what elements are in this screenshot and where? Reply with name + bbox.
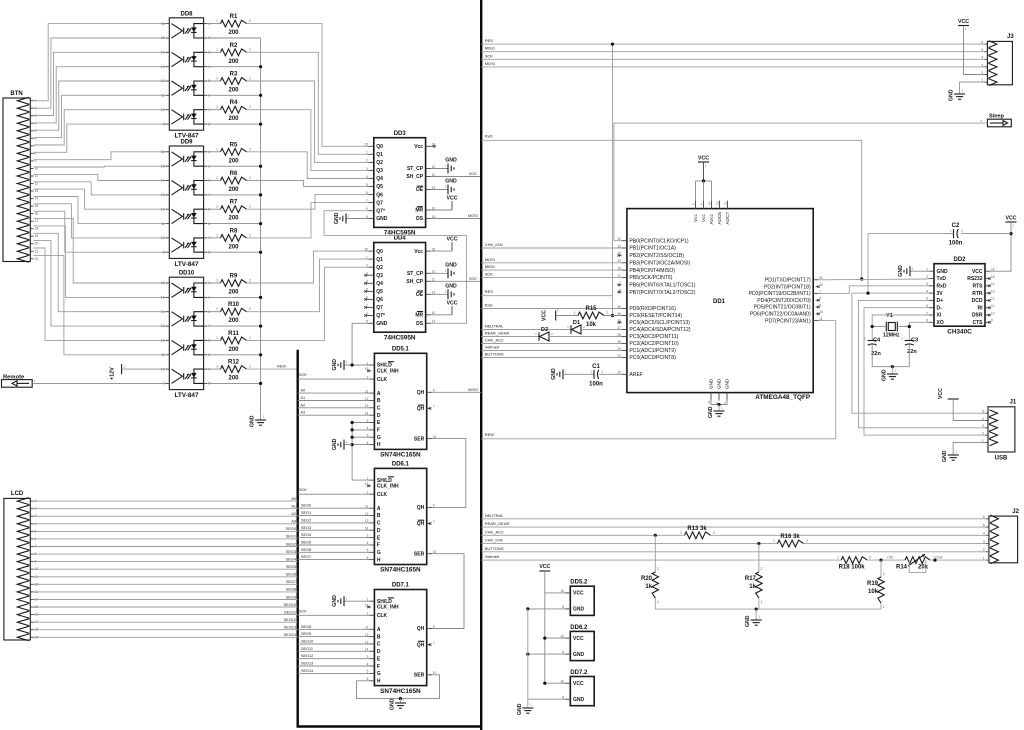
svg-text:200: 200 xyxy=(228,158,239,164)
wire VCC to DD5.2 xyxy=(545,592,565,594)
svg-text:10: 10 xyxy=(161,236,165,240)
wire DD3 DS MOSI xyxy=(431,214,481,219)
svg-text:PD2(INT0/PCINT18): PD2(INT0/PCINT18) xyxy=(764,284,811,290)
svg-text:Q1: Q1 xyxy=(376,152,383,158)
svg-text:CLK_INH: CLK_INH xyxy=(377,484,399,490)
wire REAR_GEAR with diode D2 to PC3 xyxy=(481,331,539,337)
svg-text:12: 12 xyxy=(161,339,165,343)
svg-text:GND: GND xyxy=(332,595,338,607)
svg-text:Q5: Q5 xyxy=(376,289,383,295)
svg-text:Voltmetr: Voltmetr xyxy=(485,554,500,559)
svg-text:PC4(ADC4/SDA/PCINT12): PC4(ADC4/SDA/PCINT12) xyxy=(629,327,690,333)
resistor R11 xyxy=(207,331,251,353)
svg-text:R17: R17 xyxy=(745,576,757,582)
svg-text:10k: 10k xyxy=(868,589,879,595)
svg-text:VCC: VCC xyxy=(698,156,709,162)
svg-text:R8: R8 xyxy=(230,228,238,234)
svg-text:C: C xyxy=(377,521,381,527)
svg-text:GND: GND xyxy=(573,697,585,703)
svg-text:2: 2 xyxy=(249,77,251,81)
svg-text:B: B xyxy=(377,634,381,640)
svg-text:11: 11 xyxy=(161,222,165,226)
svg-text:SEG2: SEG2 xyxy=(301,518,311,522)
svg-text:2: 2 xyxy=(713,531,715,535)
wire SCK to DD5.1 CLK xyxy=(298,373,369,379)
power block DD5.2 xyxy=(560,580,594,616)
resistor R12 xyxy=(207,360,251,382)
wire BTN pins 17-22 to DD10 inputs xyxy=(34,219,166,355)
wire DD2 3V to C2 and J1 pin 5 xyxy=(852,234,985,414)
svg-text:SEG10: SEG10 xyxy=(284,603,296,607)
svg-text:VCC: VCC xyxy=(573,591,584,597)
svg-text:XO: XO xyxy=(937,320,944,326)
svg-text:GND: GND xyxy=(949,89,955,101)
svg-text:CLK_INH: CLK_INH xyxy=(377,369,399,375)
svg-text:13: 13 xyxy=(161,324,165,328)
svg-text:11: 11 xyxy=(161,353,165,357)
svg-text:Vcc: Vcc xyxy=(701,214,706,222)
svg-text:BUTTONS: BUTTONS xyxy=(485,546,504,551)
wire BUTTONS to J2 xyxy=(481,546,986,552)
wire DD3 SH_CP SCK xyxy=(431,172,481,177)
svg-text:R2: R2 xyxy=(230,43,238,49)
ground flag at DD3 GND pin xyxy=(334,212,369,224)
svg-text:CLK: CLK xyxy=(377,613,388,619)
wire even-pin ground bus xyxy=(207,38,262,419)
svg-text:16: 16 xyxy=(161,150,165,154)
svg-text:GND: GND xyxy=(573,652,585,658)
svg-text:REAR_GEAR: REAR_GEAR xyxy=(485,331,510,336)
svg-text:R7: R7 xyxy=(230,200,238,206)
svg-text:PD6(PCINT22/OC0A/AN0): PD6(PCINT22/OC0A/AN0) xyxy=(750,312,811,318)
svg-text:DD1: DD1 xyxy=(713,299,726,305)
wire MOSI to PB3 xyxy=(481,257,621,263)
wire Voltmetr with R18 R14 to J2 xyxy=(481,554,841,560)
svg-text:PD0(RXD/PCINT16): PD0(RXD/PCINT16) xyxy=(629,306,676,312)
svg-text:200: 200 xyxy=(228,318,239,324)
svg-text:A: A xyxy=(377,391,381,397)
svg-text:A0: A0 xyxy=(301,389,306,393)
ground at J3 xyxy=(949,82,985,101)
svg-text:18: 18 xyxy=(35,227,39,231)
svg-text:AVcc: AVcc xyxy=(709,213,714,224)
svg-text:13: 13 xyxy=(161,193,165,197)
svg-text:200: 200 xyxy=(228,30,239,36)
svg-text:GND: GND xyxy=(881,369,887,381)
power block DD6.2 xyxy=(560,625,594,661)
svg-text:Vcc: Vcc xyxy=(693,214,698,222)
svg-text:SCK: SCK xyxy=(485,53,494,58)
svg-text:Q0: Q0 xyxy=(376,249,383,255)
section divider line xyxy=(480,0,482,730)
wire GND to DD7.2 xyxy=(528,698,565,700)
resistor R3 xyxy=(207,72,251,94)
svg-text:G: G xyxy=(377,550,381,556)
svg-text:LTV-847: LTV-847 xyxy=(174,392,198,399)
svg-text:Q3: Q3 xyxy=(376,273,383,279)
power VCC for shift registers xyxy=(539,564,550,685)
svg-text:28: 28 xyxy=(617,319,621,323)
resistor R6 xyxy=(207,171,251,193)
optocoupler DD9 xyxy=(161,140,210,268)
svg-text:A2: A2 xyxy=(291,512,296,516)
svg-text:10: 10 xyxy=(991,311,995,315)
svg-text:1: 1 xyxy=(216,176,218,180)
svg-text:PD5(PCINT21/OC0B/T1): PD5(PCINT21/OC0B/T1) xyxy=(754,305,811,311)
wire SEG8-SEG14 to DD7.1 inputs xyxy=(298,625,369,674)
svg-text:15: 15 xyxy=(161,296,165,300)
resistor R8 xyxy=(207,228,251,250)
wire LCD pins to module edge xyxy=(34,497,298,637)
svg-text:A3: A3 xyxy=(291,520,296,524)
svg-text:GND: GND xyxy=(445,262,457,268)
svg-text:200: 200 xyxy=(228,347,239,353)
svg-text:14: 14 xyxy=(161,179,165,183)
wire Sleep to DD1 PB0 xyxy=(614,123,988,241)
svg-text:CTS: CTS xyxy=(973,320,984,326)
resistor R18 100k xyxy=(837,556,905,571)
svg-text:2: 2 xyxy=(926,275,928,279)
svg-text:17: 17 xyxy=(35,219,39,223)
svg-text:F: F xyxy=(377,428,380,434)
wire SCK to DD6.1 CLK xyxy=(298,488,369,494)
svg-text:SEG0: SEG0 xyxy=(286,527,296,531)
svg-text:VCC: VCC xyxy=(539,564,550,570)
svg-text:SEG8: SEG8 xyxy=(286,588,296,592)
svg-text:C: C xyxy=(377,642,381,648)
wire CHK_IGN to PB1 xyxy=(481,242,621,248)
svg-text:SEG6: SEG6 xyxy=(301,548,311,552)
trimmer R14 20k xyxy=(887,554,986,573)
svg-text:LTV-847: LTV-847 xyxy=(174,261,198,268)
svg-text:DS: DS xyxy=(416,216,424,222)
wire DD4 SH_CP SCK xyxy=(431,277,481,282)
ground flag at DD3 ST_CP xyxy=(431,158,457,174)
svg-text:2: 2 xyxy=(883,572,885,576)
svg-text:SN74HC165N: SN74HC165N xyxy=(380,688,421,695)
svg-text:BTN: BTN xyxy=(10,91,22,97)
svg-text:CHK_IGN: CHK_IGN xyxy=(485,538,503,543)
svg-text:15: 15 xyxy=(991,275,995,279)
svg-text:1: 1 xyxy=(216,77,218,81)
svg-text:PB3(PCINT3/OC2A/MOSI): PB3(PCINT3/OC2A/MOSI) xyxy=(629,260,690,266)
svg-text:CHK_ACC: CHK_ACC xyxy=(485,338,504,343)
svg-text:2: 2 xyxy=(761,567,763,571)
svg-text:Q0: Q0 xyxy=(376,144,383,150)
svg-text:74HC595N: 74HC595N xyxy=(384,334,416,341)
connector LCD xyxy=(4,491,38,641)
svg-text:15: 15 xyxy=(161,36,165,40)
svg-text:C2: C2 xyxy=(952,223,960,229)
svg-text:2: 2 xyxy=(249,307,251,311)
svg-text:C1: C1 xyxy=(592,364,600,370)
svg-text:GND: GND xyxy=(942,450,948,462)
svg-text:MR: MR xyxy=(415,313,423,319)
svg-text:SCK: SCK xyxy=(299,609,307,613)
svg-text:Voltmetr: Voltmetr xyxy=(485,345,500,350)
svg-text:ADC6: ADC6 xyxy=(717,212,722,225)
svg-text:DD5.1: DD5.1 xyxy=(392,347,410,353)
svg-text:7: 7 xyxy=(35,144,37,148)
svg-text:SEG13: SEG13 xyxy=(301,662,313,666)
svg-text:GND: GND xyxy=(517,703,523,715)
wire BUTTONS to PC0 xyxy=(481,352,621,358)
wire REW from divider to DD1 PD7 xyxy=(481,321,836,439)
svg-text:DD4: DD4 xyxy=(394,236,407,242)
svg-text:SEG10: SEG10 xyxy=(301,640,313,644)
svg-text:C: C xyxy=(377,406,381,412)
svg-text:200: 200 xyxy=(228,187,239,193)
svg-text:1: 1 xyxy=(761,600,763,604)
wire VCC to DD6.2 xyxy=(543,637,565,640)
svg-text:PB0(PCINT0/CLKO/ICP1): PB0(PCINT0/CLKO/ICP1) xyxy=(629,238,688,244)
ground flag at DD5.1 input bus xyxy=(332,438,352,450)
svg-text:VCC: VCC xyxy=(958,19,969,25)
svg-text:GND: GND xyxy=(745,615,751,627)
svg-text:R20: R20 xyxy=(641,576,653,582)
svg-text:CLK_INH: CLK_INH xyxy=(377,605,399,611)
svg-text:PD7(PCINT23/AN1): PD7(PCINT23/AN1) xyxy=(765,318,811,324)
svg-text:SEG4: SEG4 xyxy=(301,533,311,537)
svg-text:22n: 22n xyxy=(907,349,917,355)
svg-text:A: A xyxy=(377,627,381,633)
optocoupler DD8 xyxy=(161,11,210,139)
resistor R19 10k xyxy=(867,560,885,609)
resistor R13 3k xyxy=(680,526,986,539)
svg-text:DD8: DD8 xyxy=(180,11,193,17)
svg-text:1: 1 xyxy=(680,531,682,535)
svg-text:MOSI: MOSI xyxy=(485,61,495,66)
svg-text:D: D xyxy=(377,649,381,655)
shift register DD5.1 SN74HC165N xyxy=(365,347,437,459)
svg-text:16: 16 xyxy=(161,281,165,285)
svg-text:1: 1 xyxy=(216,48,218,52)
svg-text:SEG12: SEG12 xyxy=(301,654,313,658)
svg-text:SEG1: SEG1 xyxy=(286,535,296,539)
connector BTN xyxy=(3,91,38,262)
svg-text:R15: R15 xyxy=(585,306,597,312)
svg-text:SEG6: SEG6 xyxy=(286,573,296,577)
svg-text:16: 16 xyxy=(35,212,39,216)
svg-text:200: 200 xyxy=(228,59,239,65)
svg-text:12: 12 xyxy=(991,297,995,301)
svg-text:Q4: Q4 xyxy=(376,176,383,182)
svg-text:SEG8: SEG8 xyxy=(301,625,311,629)
svg-text:A1: A1 xyxy=(291,505,296,509)
svg-text:MOSI: MOSI xyxy=(485,257,495,262)
ground flag at DD4 ST_CP xyxy=(431,262,457,278)
svg-text:1: 1 xyxy=(773,539,775,543)
svg-text:PC2(ADC2/PCINT10): PC2(ADC2/PCINT10) xyxy=(629,341,679,347)
wire bottom resistor ground rail xyxy=(655,608,881,628)
svg-text:5: 5 xyxy=(982,410,984,414)
svg-text:SEG11: SEG11 xyxy=(301,647,313,651)
svg-text:SN74HC165N: SN74HC165N xyxy=(380,567,421,574)
svg-text:QH: QH xyxy=(417,642,425,648)
svg-text:200: 200 xyxy=(228,376,239,382)
power VCC and capacitor C2 at DD2 xyxy=(990,216,1016,272)
svg-text:GND: GND xyxy=(898,265,904,277)
svg-text:VCC: VCC xyxy=(573,681,584,687)
svg-text:16: 16 xyxy=(161,22,165,26)
usb-serial DD2 CH340C xyxy=(926,257,995,336)
capacitor C2 100n xyxy=(946,223,1012,247)
shift register DD7.1 SN74HC165N xyxy=(365,583,437,695)
svg-text:1: 1 xyxy=(216,205,218,209)
svg-text:PD3(PCINT19/OC2B/INT1): PD3(PCINT19/OC2B/INT1) xyxy=(749,291,811,297)
svg-text:H: H xyxy=(377,679,381,685)
svg-text:R1: R1 xyxy=(230,14,238,20)
resistor R1 xyxy=(207,14,251,36)
svg-text:SEG0: SEG0 xyxy=(301,504,311,508)
svg-text:Y1: Y1 xyxy=(886,313,893,319)
svg-text:GND: GND xyxy=(573,607,585,613)
svg-text:R5: R5 xyxy=(230,142,238,148)
net flag Sleep xyxy=(980,114,1011,127)
svg-text:Q6: Q6 xyxy=(376,192,383,198)
wire A0-A3 to DD5.1 A-D xyxy=(298,389,369,416)
svg-text:ADC7: ADC7 xyxy=(725,212,730,225)
svg-text:PC3(ADC3/PCINT11): PC3(ADC3/PCINT11) xyxy=(629,334,678,340)
ground earth below DD7.1 xyxy=(389,698,406,711)
svg-text:SEG7: SEG7 xyxy=(301,555,311,559)
diode D1 xyxy=(567,320,621,334)
svg-text:+12V: +12V xyxy=(110,367,116,380)
svg-text:14: 14 xyxy=(161,310,165,314)
svg-text:D: D xyxy=(377,413,381,419)
svg-text:2: 2 xyxy=(249,233,251,237)
svg-text:2: 2 xyxy=(249,48,251,52)
svg-text:SCK: SCK xyxy=(469,172,477,176)
svg-text:SER: SER xyxy=(414,673,425,679)
wire DD3 Q7* to DD4 DS cascade xyxy=(324,211,466,324)
svg-text:2: 2 xyxy=(249,105,251,109)
svg-text:R13 3k: R13 3k xyxy=(687,526,707,532)
svg-text:D-: D- xyxy=(937,305,943,311)
wire NEUTRAL to J2 xyxy=(481,513,986,519)
svg-text:SCK: SCK xyxy=(469,277,477,281)
svg-text:8: 8 xyxy=(619,288,621,292)
resistor R15 10k pull-up xyxy=(542,306,622,328)
svg-text:1: 1 xyxy=(216,147,218,151)
svg-text:12: 12 xyxy=(161,207,165,211)
svg-text:Q7*: Q7* xyxy=(376,313,385,319)
svg-text:TxD: TxD xyxy=(937,276,947,282)
svg-text:R19: R19 xyxy=(867,581,879,587)
svg-text:PB6(PCINT6/XTAL1/TOSC1): PB6(PCINT6/XTAL1/TOSC1) xyxy=(629,283,695,289)
svg-text:A2: A2 xyxy=(301,403,306,407)
wire SCK to DD7.1 CLK xyxy=(298,609,369,615)
wire DD7.1 H and SER to ground loop xyxy=(357,675,440,700)
ground flag at DD2 GND xyxy=(898,265,929,277)
wire DD6.1 SH/LD from ground bus xyxy=(352,479,369,481)
wire BTN pins 1-8 to DD8 inputs xyxy=(34,24,166,153)
svg-text:PB5(SCK/PCINT5): PB5(SCK/PCINT5) xyxy=(629,275,672,281)
svg-text:13: 13 xyxy=(991,289,995,293)
svg-text:2: 2 xyxy=(657,567,659,571)
svg-text:PB4(PCINT4/MISO): PB4(PCINT4/MISO) xyxy=(629,268,675,274)
svg-text:GND: GND xyxy=(445,158,457,164)
svg-text:GND: GND xyxy=(445,283,457,289)
svg-text:DSR: DSR xyxy=(972,313,983,319)
svg-text:11: 11 xyxy=(991,304,995,308)
svg-text:PC5(ADC5/SCL/PCINT13): PC5(ADC5/SCL/PCINT13) xyxy=(629,320,690,326)
wire DD1 PD3 to DD2 RxD xyxy=(819,286,929,294)
svg-text:2: 2 xyxy=(249,147,251,151)
svg-text:DD5.2: DD5.2 xyxy=(570,580,588,586)
svg-text:200: 200 xyxy=(228,216,239,222)
svg-text:2: 2 xyxy=(869,556,871,560)
svg-text:DD2: DD2 xyxy=(953,257,966,263)
svg-text:XI: XI xyxy=(937,313,942,319)
svg-text:REAR_GEAR: REAR_GEAR xyxy=(485,521,510,526)
resistor R16 3k xyxy=(773,534,986,547)
svg-text:1: 1 xyxy=(216,105,218,109)
svg-text:GND: GND xyxy=(332,359,338,371)
svg-text:NEUTRAL: NEUTRAL xyxy=(485,324,504,329)
svg-text:SCK: SCK xyxy=(485,271,494,276)
svg-text:Sleep: Sleep xyxy=(989,114,1005,120)
wire Remote to DD10 pin 9 xyxy=(32,382,165,384)
svg-text:20k: 20k xyxy=(918,565,929,571)
svg-text:ST_CP: ST_CP xyxy=(407,166,424,172)
svg-text:ST_CP: ST_CP xyxy=(407,271,424,277)
wire GND to DD5.2 xyxy=(526,607,565,610)
svg-text:7: 7 xyxy=(433,520,435,524)
svg-text:SEG9: SEG9 xyxy=(286,595,296,599)
connector J2 xyxy=(983,509,1020,564)
svg-text:13: 13 xyxy=(35,189,39,193)
wire DD6.1 SER from DD7.1 QH xyxy=(432,554,464,629)
resistor R20 1k xyxy=(641,534,659,609)
svg-text:MISO: MISO xyxy=(485,46,495,51)
svg-text:GND: GND xyxy=(445,179,457,185)
svg-text:REW: REW xyxy=(485,432,495,437)
svg-text:1: 1 xyxy=(574,311,576,315)
wire MISO to PB4 xyxy=(481,264,621,270)
svg-text:VCC: VCC xyxy=(542,310,548,321)
svg-text:10: 10 xyxy=(819,310,823,314)
svg-text:2: 2 xyxy=(249,176,251,180)
svg-text:OE: OE xyxy=(416,187,424,193)
power VCC at DD4 Vcc xyxy=(431,237,458,252)
svg-text:SCK: SCK xyxy=(299,488,307,492)
svg-text:RxD: RxD xyxy=(937,284,947,290)
svg-text:QH: QH xyxy=(417,521,425,527)
svg-text:GND: GND xyxy=(708,406,714,418)
svg-text:SEG13: SEG13 xyxy=(284,626,296,630)
svg-text:H: H xyxy=(377,442,381,448)
svg-text:1: 1 xyxy=(657,600,659,604)
svg-text:PB7(PCINT7/XTAL2/TOSC2): PB7(PCINT7/XTAL2/TOSC2) xyxy=(629,290,695,296)
svg-text:RTR: RTR xyxy=(972,291,983,297)
svg-text:SEG5: SEG5 xyxy=(286,565,296,569)
svg-text:1: 1 xyxy=(216,19,218,23)
svg-text:Q1: Q1 xyxy=(376,257,383,263)
svg-text:1k: 1k xyxy=(749,584,756,590)
wire R12 output REW to module edge xyxy=(247,365,298,370)
svg-text:SEG3: SEG3 xyxy=(286,550,296,554)
svg-text:G: G xyxy=(377,671,381,677)
svg-text:11: 11 xyxy=(161,94,165,98)
svg-text:A1: A1 xyxy=(301,396,306,400)
svg-text:DD6.1: DD6.1 xyxy=(392,462,410,468)
svg-text:GND: GND xyxy=(376,216,388,222)
svg-text:AREF: AREF xyxy=(629,372,643,378)
resistor R4 xyxy=(207,100,251,122)
svg-text:RES: RES xyxy=(485,289,494,294)
ground bus earth symbol xyxy=(250,415,267,428)
